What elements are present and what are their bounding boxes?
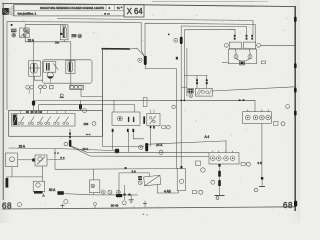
distributor sensor B1 — [20, 28, 30, 38]
tick left of plate box — [121, 7, 123, 9]
inner wall vertical — [186, 48, 188, 96]
terminal circles left group1 — [26, 85, 53, 89]
wires S2 entries — [181, 26, 246, 35]
wire left box loop — [7, 22, 141, 110]
svg-text:28 A: 28 A — [19, 144, 26, 148]
wire M3 down — [150, 128, 152, 146]
M3 top stubs — [150, 110, 152, 114]
wire S3 out right — [148, 141, 226, 153]
wire bus1 to M2 top — [113, 100, 115, 112]
terminal circle left — [225, 43, 229, 47]
splice blob on bus1 turn — [32, 101, 35, 106]
wire box B down with shield segments — [219, 167, 221, 196]
bus line 2 — [39, 104, 135, 106]
wire 28A to splice — [55, 149, 117, 151]
wire into S3 from left — [103, 136, 145, 146]
ground G5 — [215, 196, 225, 200]
svg-text:10 A: 10 A — [83, 147, 89, 151]
wire sensor to coil bus — [25, 38, 71, 42]
long wire line1 — [55, 149, 177, 170]
svg-text:X 64: X 64 — [127, 7, 143, 16]
svg-text:%: % — [117, 6, 120, 10]
pins under M2 — [112, 129, 114, 132]
wire splice out to right — [145, 65, 176, 69]
wire CN1 to right rail — [212, 87, 294, 91]
node circle below pins — [138, 181, 142, 185]
node circle below S3 — [159, 150, 163, 154]
connector harness top-left — [2, 5, 14, 16]
connector box A — [243, 112, 272, 124]
contact sub-box A — [44, 62, 59, 72]
center module M2 — [112, 112, 140, 125]
ground pad under relays — [240, 61, 245, 65]
tiny marks bottom centre — [143, 214, 145, 215]
feed row above CN1 — [184, 75, 207, 77]
stubs under terminal circles — [28, 89, 30, 93]
circled node — [64, 200, 68, 204]
connector frame on bus — [143, 98, 147, 107]
strip switch 3 — [37, 117, 43, 125]
tick on line1 — [125, 167, 127, 169]
node circle left of shield — [211, 180, 215, 184]
fuse symbol right — [248, 54, 252, 59]
scan edge faint line — [152, 0, 268, 2]
wire down from slant area — [124, 185, 126, 200]
diagnostic socket box4 — [89, 180, 99, 193]
node circle on S1 drop — [172, 105, 175, 108]
relay K2 — [243, 42, 255, 49]
svg-text:3 B: 3 B — [258, 161, 263, 165]
ticks on bus1 — [239, 99, 241, 101]
circled node after 68 — [18, 203, 22, 207]
node circle at splice A — [64, 142, 68, 146]
motor symbol — [47, 72, 53, 78]
lower-left unit outer box — [9, 111, 103, 137]
wire pair to box B upper — [71, 146, 209, 153]
svg-text:wm.justfiles. 1: wm.justfiles. 1 — [18, 12, 37, 16]
grid label box left of CN1 — [188, 88, 194, 93]
ballast resistor (tall box) — [177, 166, 185, 191]
pin under wire A — [261, 177, 263, 180]
coil sub-box B — [66, 61, 75, 74]
ignition coil — [60, 25, 68, 40]
svg-text:= =: = = — [86, 132, 91, 136]
M3 pins below — [150, 126, 152, 128]
fuel pump relay (slanted) — [144, 175, 161, 186]
svg-text:4 A: 4 A — [132, 169, 136, 173]
wire resistor bottom — [34, 76, 42, 80]
node circle at S2 — [174, 38, 178, 42]
strip switch 5 — [54, 117, 60, 125]
wire coil bus drop to switch strip — [32, 42, 34, 114]
svg-text:68: 68 — [283, 201, 293, 210]
main relay unit box — [43, 60, 93, 83]
wire line1 into box4 — [92, 169, 94, 180]
node circle near rail — [286, 105, 290, 109]
right rail connector dots — [294, 17, 297, 22]
splice blob S1 — [144, 56, 147, 65]
title block — [14, 5, 144, 17]
pin mark on vertical — [176, 57, 178, 60]
wire box1 to box2 — [18, 159, 33, 161]
blob on bus2 — [79, 104, 82, 110]
wire W1 upper feed to relays — [57, 19, 253, 35]
svg-text:30 50 15 19: 30 50 15 19 — [26, 111, 43, 114]
splice blob A under unit box — [69, 140, 72, 147]
wire box2 down — [42, 166, 44, 177]
pins above relays — [234, 35, 236, 37]
relay K1 — [229, 42, 241, 49]
wire stub into relay base — [222, 61, 228, 63]
svg-text:68: 68 — [2, 202, 12, 211]
relay base box — [228, 49, 256, 64]
splice blob SP4 — [115, 149, 119, 154]
stubs above box A pins — [247, 110, 249, 112]
node dot mid — [168, 34, 169, 35]
page border left — [2, 4, 4, 200]
pins above box B — [212, 151, 214, 153]
bus turn-downs to strip — [38, 105, 40, 114]
thermo sensor box2 — [35, 155, 47, 166]
label marks 28AB — [54, 152, 56, 154]
wire blob down to unit box — [80, 100, 82, 110]
wire CN1 to left vertical — [181, 86, 187, 88]
node circle S3 — [139, 145, 143, 149]
svg-text:SCHALTUNG ANZEIGEN A KALMER GU: SCHALTUNG ANZEIGEN A KALMER GUMGML LEGAT… — [40, 6, 104, 10]
wire slant relay bottom to resistor R2 — [158, 185, 179, 193]
small box and circle left of B — [196, 161, 206, 172]
strip switch 2 — [28, 117, 34, 125]
wires to base — [235, 49, 236, 55]
thermo switch box1 — [6, 153, 18, 167]
wire M2 to bus2 — [134, 105, 136, 112]
feed from unit box to splice A — [69, 129, 71, 140]
strip switch 1 — [18, 117, 24, 125]
long vertical pair from right blob — [180, 26, 182, 166]
fan wires into splice — [130, 48, 144, 56]
pin marks on bus — [123, 194, 125, 196]
svg-text:4 AB: 4 AB — [164, 189, 171, 193]
circled label in unit — [92, 122, 96, 126]
label 17 circle — [78, 34, 82, 38]
sensor module icon (hatch plate) — [11, 29, 16, 32]
fuse symbol left — [234, 54, 238, 59]
wire relay unit to junction col — [81, 90, 103, 97]
resistor block — [29, 61, 41, 76]
node circles on bottom bus — [101, 190, 105, 194]
wire coil down — [63, 40, 65, 42]
spoke node under grid box — [189, 94, 193, 98]
label 103 — [72, 34, 77, 37]
label box A — [274, 121, 286, 126]
terminal row under relay unit — [70, 85, 84, 89]
M3 label box — [162, 125, 170, 129]
wire box A down — [261, 123, 263, 177]
dark bar left of M3 — [143, 116, 145, 123]
strip switch 4 — [45, 117, 51, 125]
grounds on bottom rule — [61, 203, 65, 208]
svg-text:103: 103 — [84, 122, 89, 126]
injection unit CN1 — [195, 88, 212, 96]
ground G4 — [254, 180, 265, 192]
relay pair assembly — [225, 35, 261, 65]
svg-text:24 A: 24 A — [156, 143, 163, 147]
wire line2 to slant relay — [119, 173, 149, 176]
thick lead to fan — [102, 48, 131, 50]
svg-text:AA: AA — [55, 41, 59, 45]
page bottom rule — [2, 207, 296, 209]
title row1 cell dividers — [105, 5, 107, 11]
relay box M3 — [147, 114, 160, 126]
ground on bus — [129, 195, 134, 203]
circled node end — [122, 201, 126, 205]
svg-text:103: 103 — [72, 35, 77, 38]
junction dots on bus — [180, 100, 182, 102]
injector box3 — [33, 181, 45, 193]
svg-text:● ▪▪: ● ▪▪ — [104, 12, 110, 16]
lamp icon — [12, 33, 16, 37]
wire through relay unit — [70, 42, 72, 85]
wire lower bus — [7, 177, 43, 181]
mini pins left of slanted relay — [138, 176, 142, 178]
svg-text:30 A: 30 A — [49, 188, 56, 192]
splice blob S2 on box wall — [180, 37, 183, 44]
wire box4 to bus — [92, 193, 94, 195]
strip switch 6 — [63, 117, 69, 125]
wire box1 down — [11, 167, 13, 177]
wire box2 out right — [47, 158, 65, 161]
terminal circle right — [257, 43, 261, 47]
wire line2 drop — [118, 173, 120, 194]
page border right double rail — [294, 7, 296, 211]
pin at box2 — [32, 159, 35, 162]
ground under box3 — [42, 194, 45, 196]
blob label — [57, 191, 63, 195]
node dot top-left — [11, 24, 13, 26]
wire 28A — [9, 147, 56, 150]
shield bar left — [6, 178, 9, 188]
splice S3 lower — [145, 143, 148, 151]
strip top stubs — [20, 111, 22, 114]
switch strip box — [12, 114, 76, 127]
pin under box B — [218, 164, 220, 167]
label box B — [241, 162, 250, 166]
label box right of relays — [261, 61, 265, 64]
wire sensor top feed — [25, 25, 64, 28]
bus line 1 — [33, 100, 255, 111]
page border top — [2, 4, 296, 7]
svg-text:30 40: 30 40 — [111, 203, 119, 207]
pin stacks above CN1 — [196, 79, 198, 81]
wires M2 pins down — [112, 132, 114, 150]
label right of resistor — [192, 190, 203, 194]
wire pair to box B lower — [71, 146, 209, 156]
node circle near bus blob — [83, 109, 87, 113]
svg-text:23 A: 23 A — [28, 38, 35, 42]
node circle at splice — [138, 58, 142, 62]
wires pins to CN1 — [196, 84, 198, 88]
wire relay right terminal to rail — [261, 44, 295, 46]
wire S1 drop to resistor — [176, 69, 178, 169]
connector box B — [209, 153, 239, 165]
junction box column — [102, 49, 103, 137]
blob on bottom bus — [116, 194, 122, 197]
ground under relay unit — [60, 94, 65, 98]
wire right box loop / W2 — [145, 23, 255, 50]
wire blob to bottom bus — [64, 194, 138, 195]
strip connector hatch — [13, 115, 17, 126]
svg-text:A 4: A 4 — [205, 135, 210, 139]
